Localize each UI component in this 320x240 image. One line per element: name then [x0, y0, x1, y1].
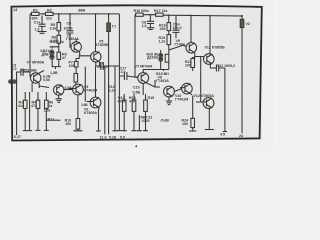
- svg-text:Г1: Г1: [112, 25, 116, 29]
- svg-text:1к: 1к: [49, 104, 53, 108]
- svg-text:R16 600к: R16 600к: [134, 9, 150, 13]
- svg-text:38В: 38В: [78, 8, 85, 13]
- svg-text:100,0: 100,0: [173, 26, 182, 30]
- svg-text:1,5к: 1,5к: [44, 109, 51, 113]
- svg-text:330: 330: [160, 27, 166, 31]
- svg-text:0,5В: 0,5В: [133, 91, 141, 95]
- svg-text:6.27: 6.27: [14, 135, 21, 139]
- svg-text:ГТ402М: ГТ402М: [175, 97, 188, 101]
- svg-text:41к: 41к: [18, 104, 24, 108]
- svg-text:1,2к: 1,2к: [159, 40, 166, 44]
- svg-text:0,58: 0,58: [65, 86, 72, 90]
- svg-text:Д226Б: Д226Б: [147, 56, 159, 60]
- svg-text:22к: 22к: [46, 17, 52, 21]
- svg-text:47к: 47к: [129, 100, 135, 104]
- svg-text:100: 100: [185, 64, 191, 68]
- svg-text:КТ805А: КТ805А: [84, 111, 97, 115]
- svg-text:14В: 14В: [81, 103, 88, 107]
- svg-text:Д9В: Д9В: [42, 53, 50, 57]
- svg-text:R17 22к: R17 22к: [154, 9, 168, 13]
- svg-text:+: +: [213, 66, 215, 70]
- svg-text:V12 КТ805А: V12 КТ805А: [194, 94, 215, 98]
- svg-text:1,8В: 1,8В: [50, 71, 58, 75]
- svg-text:ГТ402М: ГТ402М: [84, 89, 97, 93]
- svg-text:ГТ403А: ГТ403А: [156, 79, 169, 83]
- svg-text:21.6: 21.6: [100, 136, 107, 140]
- svg-text:К553 18В: К553 18В: [21, 69, 37, 73]
- svg-text:C1+: C1+: [34, 21, 41, 25]
- svg-text:V2: V2: [246, 22, 250, 26]
- svg-text:1000,0: 1000,0: [97, 65, 108, 69]
- svg-text:2,0: 2,0: [12, 67, 17, 71]
- svg-text:С10: С10: [133, 86, 140, 90]
- svg-text:47к: 47к: [31, 104, 37, 108]
- svg-text:2,2к: 2,2к: [109, 88, 116, 92]
- svg-text:5.0: 5.0: [120, 136, 125, 140]
- svg-text:VТ МП40А: VТ МП40А: [27, 60, 45, 64]
- svg-text:2000: 2000: [142, 119, 150, 123]
- svg-text:100: 100: [182, 122, 188, 126]
- svg-text:R2: R2: [33, 8, 38, 12]
- svg-text:3,3к: 3,3к: [50, 27, 57, 31]
- svg-text:C5: C5: [67, 22, 72, 26]
- svg-text:ГТ404: ГТ404: [175, 43, 185, 47]
- svg-text:1,0: 1,0: [35, 28, 40, 32]
- svg-text:100: 100: [69, 64, 75, 68]
- svg-text:0,66: 0,66: [43, 78, 50, 82]
- svg-text:47: 47: [62, 56, 66, 60]
- svg-text:100: 100: [65, 122, 71, 126]
- svg-text:5.28: 5.28: [109, 136, 116, 140]
- svg-text:С12 1000,0: С12 1000,0: [217, 64, 236, 68]
- svg-text:R11 2,2к: R11 2,2к: [50, 40, 64, 44]
- svg-text:КТ805Б: КТ805Б: [96, 43, 109, 47]
- svg-text:V11 КТ805Б: V11 КТ805Б: [205, 45, 226, 49]
- svg-text:R15: R15: [148, 96, 155, 100]
- svg-text:-5,6В: -5,6В: [160, 119, 169, 123]
- svg-text:470к: 470к: [118, 100, 126, 104]
- svg-text:100,0: 100,0: [64, 26, 73, 30]
- svg-text:R12: R12: [48, 118, 55, 122]
- svg-text:2,0: 2,0: [121, 70, 126, 74]
- svg-text:ГТ404А: ГТ404А: [66, 37, 79, 41]
- svg-text:R3: R3: [47, 8, 52, 12]
- svg-text:VТ МП40А: VТ МП40А: [135, 64, 153, 68]
- svg-text:24: 24: [239, 134, 243, 138]
- svg-text:1,0: 1,0: [142, 24, 147, 28]
- svg-text:4.5: 4.5: [220, 133, 225, 137]
